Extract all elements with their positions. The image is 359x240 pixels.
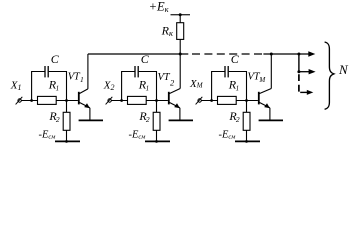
wire collector VTM to rail: [270, 54, 272, 89]
middle output arrow: [299, 69, 316, 74]
resistor R2 stage2: [153, 112, 160, 130]
node dot left X1: [30, 99, 33, 102]
resistor R2 stage1: [63, 112, 70, 130]
wire capacitor branch stage2: [122, 72, 157, 101]
wire emitter VT1 to ground: [89, 108, 91, 120]
label R1 stage1: [48, 78, 59, 93]
wire emitter VTM to ground: [269, 108, 271, 120]
wire capacitor branch stage1: [32, 72, 67, 101]
transistor VTM: [258, 89, 271, 109]
label R2 stage2: [138, 109, 149, 124]
wire capacitor branch stageM: [212, 72, 247, 101]
input terminal X2: [106, 97, 113, 105]
node dot right X2: [155, 99, 158, 102]
svg-text:C: C: [231, 52, 240, 66]
node dot left XM: [210, 99, 213, 102]
wire input X1 to base: [21, 100, 78, 102]
ground bar VTM emitter: [259, 119, 283, 121]
wire +Ek bar to Rk: [179, 15, 181, 23]
wire emitter VT2 to ground: [179, 108, 181, 120]
power +Ek terminal bar: [171, 14, 191, 16]
node dot rail at output branch: [297, 53, 300, 56]
resistor R1 stage1: [38, 96, 57, 104]
capacitor C stage2: [135, 66, 138, 77]
node dot at -Esm bar stageM: [245, 140, 248, 143]
svg-text:C: C: [141, 52, 150, 66]
label C stageM: [231, 52, 240, 66]
wire to R2 stageM: [246, 101, 248, 113]
wire to R2 stage1: [66, 101, 68, 113]
label R1 stageM: [228, 78, 239, 93]
node dot at +Ek bar: [179, 13, 182, 16]
transistor VT1: [78, 89, 90, 108]
dashed wire to bottom output: [298, 74, 300, 92]
label X1: [10, 80, 22, 93]
capacitor C stage1: [45, 66, 48, 77]
wire R2 to -Esm bar stageM: [246, 130, 248, 141]
wire output branch vertical: [298, 54, 300, 72]
wire R2 to -Esm bar stage2: [156, 130, 158, 141]
label XM: [189, 78, 204, 90]
wire collector VT1 to rail: [87, 54, 89, 89]
node dot at -Esm bar stage2: [155, 140, 158, 143]
label R1 stage2: [138, 78, 149, 93]
power +Ek label: [149, 0, 170, 14]
label R2 stageM: [228, 109, 239, 124]
label VTM: [248, 72, 267, 84]
label -Esm stage1: [39, 129, 56, 140]
collector rail right segment with output arrow: [263, 51, 315, 56]
resistor Rk: [177, 23, 184, 40]
power -Esm terminal bar stage2: [145, 140, 170, 142]
label C stage1: [51, 52, 60, 66]
power -Esm terminal bar stageM: [235, 140, 260, 142]
resistor R1 stage2: [128, 96, 147, 104]
wire R2 to -Esm bar stage1: [66, 130, 68, 141]
wire to R2 stage2: [156, 101, 158, 113]
wire input XM to base: [201, 100, 258, 102]
wire Rk to rail: [179, 39, 181, 54]
input terminal XM: [196, 97, 203, 105]
label R2 stage1: [48, 109, 59, 124]
wire input X2 to base: [111, 100, 168, 102]
collector rail dashed segment: [192, 53, 262, 55]
power -Esm terminal bar stage1: [55, 140, 80, 142]
node dot left X2: [120, 99, 123, 102]
collector rail solid left segment: [88, 53, 188, 55]
label X2: [103, 79, 115, 92]
label -Esm stage2: [129, 129, 146, 140]
label VT2: [158, 72, 175, 88]
node dot at -Esm bar stage1: [65, 140, 68, 143]
ground bar VT1 emitter: [79, 119, 103, 121]
node dot rail at VTM collector: [270, 53, 273, 56]
node dot right XM: [245, 99, 248, 102]
resistor R1 stageM: [218, 96, 237, 104]
label VT1: [68, 72, 84, 84]
svg-text:N: N: [338, 62, 349, 77]
label N: [338, 62, 349, 77]
wire collector VT2 to rail: [179, 54, 181, 89]
input terminal X1: [16, 97, 23, 105]
node dot rail at Rk junction: [179, 53, 182, 56]
label -Esm stageM: [219, 129, 236, 140]
capacitor C stageM: [225, 66, 228, 77]
node dot middle output: [297, 70, 300, 73]
ground bar VT2 emitter: [169, 119, 193, 121]
output group brace: [325, 42, 334, 109]
label Rk: [161, 23, 174, 38]
label C stage2: [141, 52, 150, 66]
bottom output arrow: [300, 90, 313, 95]
resistor R2 stageM: [243, 112, 250, 130]
svg-text:C: C: [51, 52, 60, 66]
node dot right X1: [65, 99, 68, 102]
transistor VT2: [168, 89, 180, 109]
